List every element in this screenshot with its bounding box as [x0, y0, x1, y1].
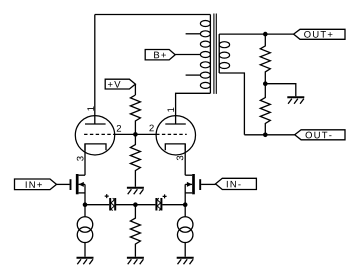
tube V1 grid — [84, 133, 115, 135]
capacitor C2 — [156, 194, 166, 210]
current source I2 — [177, 205, 193, 257]
transformer core — [214, 14, 216, 94]
flag IN- — [216, 178, 257, 189]
wire primary tap lower stub — [186, 74, 201, 76]
mosfet Q2 source lead — [185, 192, 192, 194]
flag OUT+ — [294, 29, 345, 39]
node Q1 source junction — [83, 202, 88, 207]
resistor grid upper — [130, 95, 140, 134]
tube V2 plate — [165, 123, 186, 125]
tube V1 envelope — [75, 116, 114, 155]
node OUT- junction — [263, 133, 268, 138]
pin 3 label V1 — [77, 156, 84, 161]
mosfet Q2 drain lead — [185, 174, 192, 176]
node OUT+ junction — [263, 32, 268, 37]
mosfet Q1 channel — [76, 174, 79, 194]
pin 1 label V2 — [167, 108, 174, 112]
wire IN+ to gate — [57, 183, 70, 185]
wire B+ to center tap — [175, 54, 201, 56]
node cap center junction — [133, 202, 138, 207]
mosfet Q1 gate bar — [70, 179, 72, 190]
mosfet Q2 channel — [192, 174, 195, 194]
wire +V to resistor — [134, 84, 136, 95]
mosfet Q2 body lead and arrow — [185, 183, 192, 185]
tube V2 cathode — [165, 144, 185, 150]
mosfet Q1 drain lead — [79, 174, 85, 176]
resistor load lower — [260, 84, 270, 135]
wire OUT- row — [244, 134, 294, 136]
current source I1 — [77, 205, 93, 257]
wire V2 cathode lead — [184, 144, 186, 175]
tube V2 envelope — [156, 116, 195, 155]
wire V1 cathode lead — [84, 144, 86, 175]
capacitor C1 — [105, 194, 116, 211]
tube V1 cathode — [85, 144, 106, 150]
node Q2 source junction — [183, 202, 188, 207]
wire left plate lead — [94, 15, 96, 125]
tube V2 grid — [156, 133, 187, 135]
mosfet Q2 gate bar — [199, 179, 201, 190]
wire top (left tube plate to transformer primary top) — [95, 14, 211, 16]
wire Q2 source down — [184, 184, 186, 204]
wire primary tap upper stub — [186, 33, 201, 35]
resistor grid lower — [130, 134, 140, 186]
wire secondary top to OUT+ — [219, 33, 293, 35]
wire center node to C2 — [135, 204, 155, 206]
wire C1 to center node — [116, 204, 135, 206]
wire secondary bottom — [219, 73, 244, 135]
ground tail center — [127, 258, 144, 265]
wire grid bus (V1 grid to V2 grid) — [115, 133, 156, 135]
ground center column — [127, 188, 144, 195]
mosfet Q1 body lead and arrow — [79, 183, 85, 185]
mosfet Q1 source lead — [79, 192, 85, 194]
pin 1 label V1 — [87, 107, 94, 111]
pin 3 label V2 — [177, 156, 184, 161]
flag B+ — [145, 50, 175, 60]
wire to output ground — [265, 84, 296, 97]
wire Q1 source to C1 — [85, 204, 109, 206]
wire Q1 source down — [84, 184, 86, 204]
wire right plate lead — [176, 93, 211, 124]
transformer T1 primary bus — [209, 15, 211, 94]
node grid junction — [133, 132, 138, 137]
transformer T1 secondary bus — [218, 34, 220, 73]
wire C2 to Q2 source — [162, 204, 185, 206]
flag +V — [105, 79, 135, 89]
transformer T1 secondary winding — [219, 42, 229, 69]
flag IN+ — [15, 179, 57, 190]
ground I1 — [77, 258, 94, 265]
node feedback junction — [263, 81, 268, 86]
pin 2 label V2 — [149, 125, 153, 132]
ground I2 — [177, 258, 194, 265]
tube V1 plate — [85, 123, 106, 125]
wire IN- to gate — [201, 183, 215, 185]
resistor tail center — [130, 205, 140, 257]
resistor load upper — [260, 34, 270, 84]
flag OUT- — [295, 130, 345, 140]
pin 2 label V1 — [117, 125, 121, 132]
transformer T1 primary winding — [200, 21, 210, 89]
ground output — [287, 97, 304, 104]
